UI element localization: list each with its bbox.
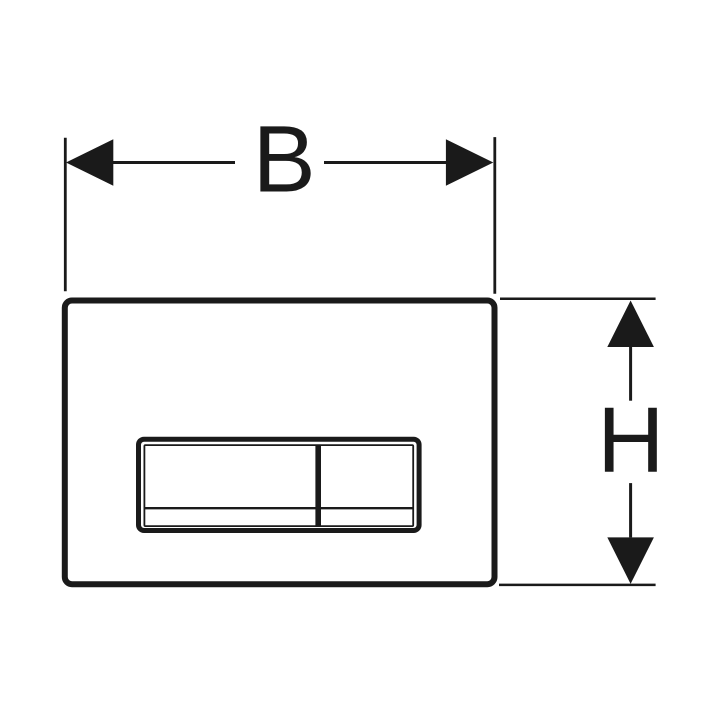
dimension line B right segment: [324, 161, 447, 164]
button inner rectangle: [144, 445, 413, 526]
button outer frame: [139, 439, 420, 530]
extension line left (B): [64, 138, 67, 291]
extension line right (B): [493, 137, 496, 294]
dimension line H lower segment: [629, 483, 632, 537]
extension line top (H): [500, 298, 656, 301]
arrowhead B left: [66, 139, 113, 186]
arrowhead B right: [446, 139, 493, 186]
extension line bottom (H): [499, 584, 656, 587]
svg-text:B: B: [253, 107, 316, 213]
svg-text:H: H: [597, 388, 664, 492]
button divider: [315, 445, 321, 527]
arrowhead H up: [607, 301, 654, 348]
plate outline: [65, 301, 495, 585]
button horizontal split line: [144, 507, 413, 509]
dimension line H upper segment: [629, 347, 632, 401]
arrowhead H down: [607, 537, 654, 584]
dimension line B left segment: [111, 161, 235, 164]
